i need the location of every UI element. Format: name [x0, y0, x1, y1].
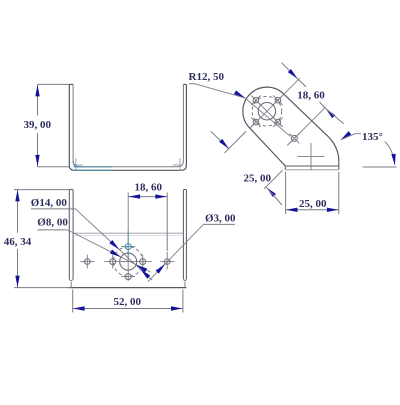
svg-text:52, 00: 52, 00 [114, 296, 142, 308]
svg-text:Ø8, 00: Ø8, 00 [37, 216, 68, 228]
svg-text:R12, 50: R12, 50 [189, 71, 225, 83]
svg-text:Ø14, 00: Ø14, 00 [31, 197, 68, 209]
svg-text:25, 00: 25, 00 [244, 172, 272, 184]
svg-text:135°: 135° [362, 131, 383, 143]
svg-text:46, 34: 46, 34 [4, 236, 32, 248]
svg-text:18, 60: 18, 60 [297, 89, 325, 101]
svg-text:25, 00: 25, 00 [299, 198, 327, 210]
svg-text:Ø3, 00: Ø3, 00 [205, 212, 236, 224]
svg-text:18, 60: 18, 60 [135, 181, 163, 193]
svg-text:39, 00: 39, 00 [24, 119, 52, 131]
